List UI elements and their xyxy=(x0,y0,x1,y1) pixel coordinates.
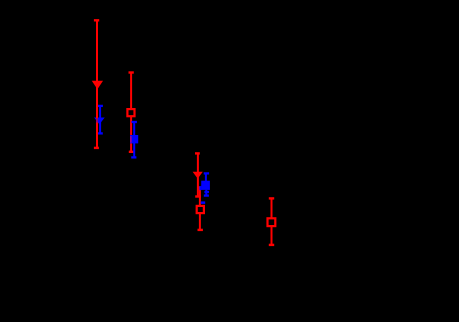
blue filled-triangle marker, point 1 xyxy=(95,118,104,124)
purple overlap stripe (red bar blended through blue square) xyxy=(130,136,132,143)
blue filled-square marker, point 2 xyxy=(201,181,210,190)
blue short cap below group 3 xyxy=(201,201,206,204)
blue filled-triangle series, point 1 (group 1) error bar xyxy=(98,106,103,133)
red open-square marker, point 3 xyxy=(268,218,276,226)
red open-square series, point 3 (group 4) error bar xyxy=(269,198,274,245)
red open-square series, point 2 (group 3) error bar xyxy=(198,187,203,230)
red filled-triangle marker, point 2 xyxy=(193,172,202,178)
red open-square marker, point 1 xyxy=(127,109,134,116)
red open-square series, point 1 (group 2) error bar xyxy=(129,73,134,152)
red filled-triangle series, point 2 (group 3) error bar xyxy=(195,153,201,196)
blue filled-square marker, point 1 xyxy=(130,135,138,143)
purple overlap tint on red bar through blue triangle xyxy=(96,118,98,122)
purple tint where red bar emerges under blue square (group 3) xyxy=(199,186,200,190)
red open-square marker, point 2 xyxy=(197,206,204,213)
blue filled-square series, point 1 (group 2) error bar xyxy=(131,122,137,157)
red filled-triangle marker, point 1 xyxy=(93,81,103,88)
blue filled-square series, point 2 (group 3) error bar xyxy=(204,173,209,195)
blue spur at lower-left of blue square (group 3) xyxy=(200,186,202,190)
red filled-triangle series, point 1 (group 1) error bar xyxy=(94,20,99,148)
